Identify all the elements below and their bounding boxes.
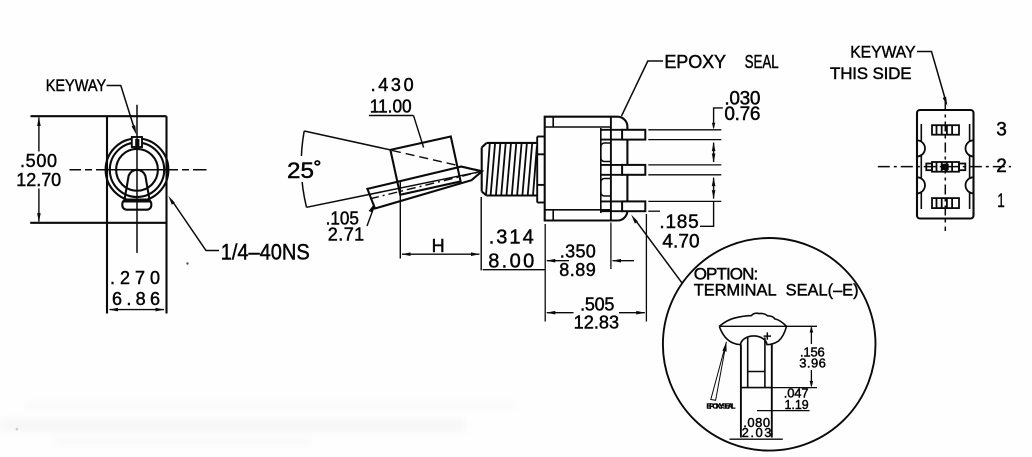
25 degree arc <box>301 131 306 207</box>
svg-text:TERMINAL SEAL(–E): TERMINAL SEAL(–E) <box>694 280 859 299</box>
body rectangle front view <box>30 116 166 313</box>
inner frame lines <box>921 124 969 209</box>
svg-text:25˚: 25˚ <box>287 158 322 183</box>
.156 3.96 dimension <box>719 325 817 327</box>
scan specks <box>186 262 188 264</box>
epoxy blob <box>719 313 786 326</box>
leader to detail circle <box>635 219 683 283</box>
svg-text:3.96: 3.96 <box>799 356 826 371</box>
toggle bat front view <box>124 170 150 202</box>
lever up axis dashed <box>392 151 480 171</box>
bushing threaded <box>482 143 538 196</box>
bushing circles front view <box>106 138 169 201</box>
.105 leader <box>367 207 374 226</box>
extension line terminal end <box>645 214 647 322</box>
svg-text:.500: .500 <box>20 151 57 171</box>
svg-text:3: 3 <box>996 120 1007 141</box>
svg-text:.430: .430 <box>371 75 414 95</box>
keyway leader <box>107 86 135 130</box>
svg-text:H: H <box>432 236 445 256</box>
extension line body front face <box>544 224 546 322</box>
seal bowl lower outline <box>719 326 786 344</box>
svg-text:EPOXY SEAL: EPOXY SEAL <box>707 403 737 410</box>
svg-text:1/4–40NS: 1/4–40NS <box>221 240 310 265</box>
25 degree angle lines <box>304 131 390 150</box>
terminal 3 <box>601 200 623 202</box>
terminal extension lines <box>648 130 721 211</box>
extension line seal <box>610 223 612 270</box>
svg-text:2.03: 2.03 <box>742 425 772 440</box>
lever up position rectangle <box>390 137 460 195</box>
terminal 1 <box>601 129 623 131</box>
dimension .500 12.70 <box>38 118 40 152</box>
horizontal center line front view <box>70 169 207 171</box>
svg-text:6.86: 6.86 <box>112 289 160 309</box>
svg-text:2: 2 <box>996 156 1007 177</box>
H dimension <box>399 182 401 259</box>
vertical center line front view <box>136 105 138 253</box>
25 deg label <box>284 156 324 182</box>
svg-text:.270: .270 <box>110 268 160 288</box>
lever down bat <box>367 167 482 209</box>
lever down axis dash-dot <box>370 171 482 199</box>
seal castellation <box>600 128 602 213</box>
svg-text:1: 1 <box>997 191 1005 212</box>
svg-text:SEAL: SEAL <box>745 52 779 72</box>
body inner lines <box>545 126 611 128</box>
terminal slot 3 <box>932 125 959 135</box>
svg-text:.505: .505 <box>580 294 614 314</box>
detail circle <box>663 238 876 451</box>
.430 leader <box>414 116 424 148</box>
.185 pitch dimensions <box>713 143 715 162</box>
svg-text:THIS SIDE: THIS SIDE <box>830 64 912 83</box>
svg-text:.314: .314 <box>489 227 534 249</box>
svg-text:12.83: 12.83 <box>574 312 619 332</box>
terminal tube inner <box>747 338 749 388</box>
horizontal center dash line right view <box>878 166 1011 168</box>
keyway leader right view <box>917 52 946 102</box>
terminal tube outer <box>740 345 742 438</box>
svg-text:2.71: 2.71 <box>328 225 365 245</box>
svg-text:11.00: 11.00 <box>370 97 412 117</box>
svg-text:.185: .185 <box>659 212 698 233</box>
svg-text:12.70: 12.70 <box>16 170 61 190</box>
svg-text:KEYWAY: KEYWAY <box>850 43 915 62</box>
terminal slot 2 <box>926 162 965 172</box>
body rectangle right view <box>917 110 974 219</box>
terminal 2 <box>601 164 623 166</box>
faint scan streaks <box>0 404 515 444</box>
terminal slot 1 <box>932 198 959 208</box>
thread hatch lines <box>486 143 537 195</box>
svg-text:EPOXY: EPOXY <box>664 52 726 72</box>
svg-text:4.70: 4.70 <box>662 231 699 252</box>
svg-text:8.89: 8.89 <box>559 260 596 280</box>
svg-text:KEYWAY: KEYWAY <box>46 76 106 95</box>
plus mark <box>764 332 771 339</box>
svg-text:0.76: 0.76 <box>724 104 760 125</box>
svg-text:.350: .350 <box>560 242 596 262</box>
side notches <box>917 140 974 193</box>
epoxy seal line <box>610 117 612 221</box>
bushing flange <box>537 137 545 203</box>
vertical center dash line right view <box>944 101 946 232</box>
keyway notch <box>132 137 142 147</box>
switch body side view <box>545 117 628 221</box>
svg-text:1.19: 1.19 <box>785 397 809 412</box>
